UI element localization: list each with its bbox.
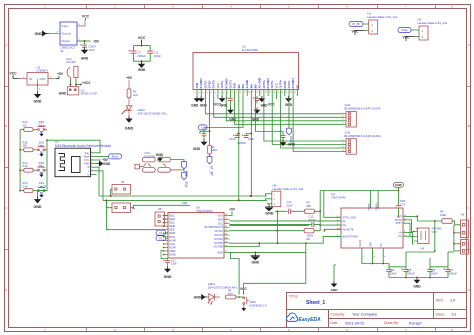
U3 ground pin wire [48, 33, 60, 35]
svg-text:MUTE/PIN/OUT: MUTE/PIN/OUT [204, 225, 223, 229]
wire OUT1- to CN2 pin3 [226, 96, 341, 121]
junction on ladder bus [19, 190, 21, 192]
IC U6 body [168, 213, 224, 259]
U4 OUT wire [409, 215, 418, 217]
connector right edge lower [461, 240, 469, 255]
svg-text:GND: GND [34, 205, 42, 209]
svg-text:+5V: +5V [57, 72, 64, 76]
wire IN4 long vertical [250, 96, 252, 196]
svg-text:Ground: Ground [62, 32, 72, 36]
resistor R10 on ST-BY [208, 145, 212, 154]
svg-text:G: G [87, 172, 89, 176]
svg-text:S-GND: S-GND [245, 80, 249, 89]
wire OUT3- to CN3 pin2 [272, 96, 341, 145]
connector CN2 body [346, 112, 356, 128]
wire out to R9 node [417, 220, 441, 222]
svg-text:DC-005: DC-005 [67, 60, 76, 64]
svg-text:Header-Male-2.54_1x2: Header-Male-2.54_1x2 [418, 21, 448, 25]
capacitor C3 10uF [84, 41, 86, 45]
audio bus wire lower [103, 199, 267, 201]
svg-text:REV:: REV: [436, 299, 443, 303]
+5V at U6 VDD [230, 212, 233, 216]
svg-text:B: B [5, 124, 7, 128]
svg-text:OUT3+: OUT3+ [262, 79, 266, 88]
net flag PJ3 below jack [181, 170, 184, 172]
H9 pin1 wire from bus [266, 194, 268, 196]
wire IN1 long vertical [238, 96, 240, 200]
header H1 body [369, 20, 378, 34]
wires into lower connector [454, 232, 456, 234]
junction on +5V rail [84, 40, 86, 42]
svg-text:GND: GND [81, 57, 89, 61]
svg-text:IN+MUTE: IN+MUTE [343, 228, 354, 231]
header H2 body [419, 26, 428, 40]
wire R8 right to node [314, 230, 320, 232]
signal ground rail above U4 [320, 190, 398, 192]
svg-text:B: B [468, 124, 470, 128]
svg-text:Company:: Company: [331, 312, 346, 316]
audio bus wire upper [99, 195, 267, 197]
svg-text:OUT2-: OUT2- [203, 80, 207, 88]
decoupling cap cluster on IN2 branch [203, 130, 205, 134]
svg-text:NC: NC [380, 243, 383, 247]
svg-text:BLH6900SB-5.0-04P-13-00A: BLH6900SB-5.0-04P-13-00A [345, 134, 381, 138]
ground flag on U6 gnd wire [251, 252, 260, 259]
svg-text:GND: GND [156, 153, 164, 157]
svg-text:BOOTSTRAP: BOOTSTRAP [343, 235, 359, 238]
svg-text:H4: H4 [132, 207, 136, 211]
U3 input pin wire to VCC [77, 20, 85, 26]
svg-text:SVR: SVR [370, 242, 373, 247]
U5 input wire and VCC [19, 78, 28, 80]
cap mark at SW1 [40, 132, 43, 133]
svg-text:C10C: C10C [229, 137, 236, 141]
svg-text:GND: GND [265, 212, 274, 216]
svg-text:L7806CV: L7806CV [37, 69, 49, 73]
ground flag at module GND pin [97, 162, 103, 166]
junction cluster dots [416, 228, 418, 230]
U5 output wire and +5V [48, 78, 56, 80]
svg-text:R6: R6 [307, 201, 311, 205]
VCC at U1 pin 20 [275, 96, 277, 99]
capacitor C16 100nF [388, 267, 390, 269]
svg-text:OUTSW: OUTSW [213, 245, 223, 249]
svg-text:1kΩ: 1kΩ [133, 93, 138, 97]
svg-text:100nF: 100nF [154, 55, 162, 58]
regulator U3 L7905 body [60, 22, 77, 45]
svg-text:Mute: Mute [401, 28, 408, 32]
svg-text:OUT: OUT [40, 77, 47, 81]
svg-text:NC: NC [295, 84, 299, 88]
svg-text:U3: U3 [60, 49, 64, 53]
top rails of caps [389, 266, 406, 268]
svg-text:AUXR: AUXR [169, 246, 176, 249]
svg-text:TDA7294V: TDA7294V [331, 195, 346, 199]
svg-text:R: R [88, 165, 90, 169]
svg-text:P-GND4: P-GND4 [291, 78, 295, 89]
wire U6 gnd down to LED row [230, 252, 239, 294]
wire OUT1+ to CN2 pin4 [235, 96, 342, 124]
wire OUT3+ to CN3 pin1 [264, 96, 342, 141]
ground at U1 pin 16 area [259, 96, 264, 101]
Mute net flag at module [97, 155, 109, 157]
wire +Vs [409, 235, 411, 237]
wire OUT4+ to CN3 pin3 [281, 96, 342, 148]
svg-text:GND: GND [288, 143, 296, 147]
U6 output wire toward C12 [230, 224, 312, 226]
svg-text:Date:: Date: [331, 321, 339, 325]
svg-text:E-TDA7386: E-TDA7386 [242, 48, 258, 52]
svg-text:GND: GND [260, 104, 268, 108]
svg-text:IN-: IN- [343, 220, 347, 223]
junctions at jack node [70, 84, 72, 86]
ground pins 1-2 of U1 [195, 96, 200, 101]
svg-text:SGND: SGND [169, 254, 176, 257]
svg-text:OUTRA: OUTRA [214, 237, 223, 241]
svg-text:1000uF: 1000uF [449, 272, 458, 275]
ground below C21 [167, 263, 169, 267]
svg-text:470nF: 470nF [309, 218, 317, 222]
svg-text:SE2L: SE2L [169, 222, 176, 225]
wire module L pin down to bus [97, 171, 104, 201]
svg-text:VCC: VCC [138, 36, 146, 40]
module U7 body [55, 148, 91, 177]
Mute net flag at H2 [398, 28, 411, 33]
svg-text:GND: GND [193, 147, 201, 151]
svg-text:1/1: 1/1 [451, 312, 456, 316]
svg-text:Sheet_1: Sheet_1 [306, 300, 325, 306]
vertical wire right [434, 221, 436, 251]
wire LED2 to ground [128, 111, 130, 116]
EasyEDA logo [286, 313, 321, 323]
IC U4 right pins [395, 215, 409, 238]
ground below U4 left [332, 282, 336, 287]
svg-text:2200uF: 2200uF [137, 55, 146, 58]
wire MUTE pin down to flag [288, 96, 290, 128]
svg-text:P-GND2: P-GND2 [199, 78, 203, 89]
cap mark at SW2 [40, 152, 43, 153]
svg-text:CREF: CREF [169, 250, 176, 253]
net flag P1 at U6 [156, 230, 166, 235]
svg-text:H5: H5 [121, 180, 125, 184]
U5 ground pin and GND [37, 85, 39, 92]
capacitor at U1 SVR pin [229, 96, 231, 98]
svg-text:STBY_GND: STBY_GND [343, 216, 357, 219]
decoupling cap on IN3 branch [281, 135, 286, 137]
ground of caps rail [415, 278, 420, 283]
svg-text:GND: GND [217, 250, 223, 254]
svg-text:XP301-5.0-2P: XP301-5.0-2P [81, 92, 98, 96]
svg-text:SCL: SCL [218, 221, 224, 225]
ground below AC-GND cap [255, 108, 260, 113]
resistor R9 body [442, 219, 453, 224]
filter caps bottom rail [134, 53, 151, 61]
branch cap to ground off ST-BY [209, 130, 211, 132]
+5V at module VCC pin [97, 159, 101, 161]
svg-text:OUTLR: OUTLR [214, 233, 223, 237]
module U7 pins [84, 151, 97, 177]
IC U4 body [341, 208, 403, 248]
svg-text:TAB: TAB [195, 83, 199, 88]
svg-text:22uF: 22uF [171, 263, 177, 266]
svg-text:R8: R8 [307, 237, 311, 241]
header H5 body [112, 185, 131, 195]
svg-text:GND: GND [191, 104, 199, 108]
svg-text:GND: GND [200, 104, 208, 108]
svg-text:51K: 51K [23, 124, 28, 127]
svg-text:C12: C12 [309, 215, 314, 219]
net flag P2 at U6 [156, 236, 166, 241]
wire caps right feed [447, 252, 449, 267]
svg-text:680: 680 [307, 204, 312, 208]
svg-text:GND: GND [84, 162, 90, 166]
svg-text:5.1K: 5.1K [23, 185, 28, 188]
wire +5V to R3 [128, 80, 130, 88]
svg-text:8.2K: 8.2K [23, 165, 28, 168]
connector right edge upper [461, 220, 469, 238]
resistor R3 [127, 89, 131, 98]
capacitor C12 left bus wire [230, 224, 309, 226]
wire +Vs down to caps [405, 252, 407, 267]
svg-text:H8: H8 [158, 207, 162, 211]
svg-text:+5V: +5V [126, 76, 133, 80]
ST-BY pin resistor network [209, 96, 211, 145]
svg-text:100nF: 100nF [431, 272, 438, 275]
svg-text:GND: GND [331, 288, 339, 292]
svg-text:+VCC: +VCC [82, 81, 91, 85]
svg-text:+Vs: +Vs [398, 235, 403, 238]
capacitor C18 1000uF [405, 267, 407, 269]
svg-text:KXD3818-2-C: KXD3818-2-C [250, 304, 267, 308]
cap mark at SW4 [40, 193, 43, 194]
wire OUT2- to CN2 pin1 [205, 96, 341, 114]
svg-text:SGND: SGND [359, 240, 362, 247]
button ladder right bus wire [46, 140, 48, 190]
capacitor C21 at U6 CREF [161, 251, 168, 261]
svg-text:IN2: IN2 [241, 84, 245, 89]
relay U8 small box [418, 228, 430, 244]
svg-text:SE3R: SE3R [169, 232, 176, 235]
svg-text:Header-Male-2.54_1x2: Header-Male-2.54_1x2 [368, 15, 398, 19]
svg-text:R9: R9 [440, 209, 444, 213]
svg-text:OUT4+: OUT4+ [279, 79, 283, 88]
VCC at U1 pin 6 [217, 96, 219, 99]
svg-text:CN1: CN1 [145, 151, 151, 155]
svg-text:GND: GND [34, 100, 42, 104]
svg-text:KGray7: KGray7 [409, 321, 422, 325]
ground below C3 [82, 47, 87, 53]
svg-text:+5V: +5V [229, 207, 236, 211]
svg-text:EasyEDA: EasyEDA [299, 317, 322, 323]
net flag PJ2 below jack [181, 160, 184, 162]
resistor R8 22k [304, 229, 314, 233]
svg-text:10kΩ: 10kΩ [440, 213, 446, 217]
svg-text:VCC: VCC [274, 83, 278, 89]
svg-text:R3: R3 [133, 89, 137, 93]
svg-text:DNF: DNF [400, 199, 406, 203]
svg-text:GND: GND [413, 284, 421, 288]
svg-text:IN4: IN4 [249, 84, 253, 89]
svg-text:0.5P: 0.5P [432, 231, 437, 234]
svg-text:BLH6900SB-5.0-04P-13-00A: BLH6900SB-5.0-04P-13-00A [345, 107, 381, 111]
junctions on audio buses [110, 195, 112, 197]
wire bus to C13 [275, 210, 288, 212]
IC U4 left pins [336, 216, 358, 239]
svg-text:PJ-327A: PJ-327A [145, 155, 156, 159]
wire -Vs to bottom ground [333, 265, 335, 282]
svg-text:M18 Bluetooth Audio Receiver M: M18 Bluetooth Audio Receiver Module [55, 144, 111, 148]
regulator U5 body [27, 73, 48, 86]
svg-text:GND: GND [125, 127, 134, 131]
svg-text:Drawn By:: Drawn By: [384, 321, 399, 325]
svg-text:IN3: IN3 [254, 84, 258, 89]
title block table [287, 293, 467, 328]
junction key line [46, 139, 48, 141]
wire node into U4 IN+ [320, 224, 341, 226]
svg-text:VCC: VCC [82, 15, 90, 19]
svg-text:MUXR: MUXR [169, 239, 176, 242]
ground below IN3 cap [281, 140, 286, 145]
wire R3 to LED2 [128, 98, 130, 106]
svg-text:ST-BY: ST-BY [208, 80, 212, 88]
capacitor C15 100nF [429, 267, 431, 269]
svg-text:OUTRF: OUTRF [214, 241, 223, 245]
wire R9 to connector [452, 221, 460, 225]
wire R6 to node [314, 210, 320, 212]
H9 pin3 wire to ground [267, 204, 269, 205]
svg-text:VDD: VDD [218, 214, 224, 218]
svg-text:VCC: VCC [216, 83, 220, 89]
net flag on IN2 branch [199, 125, 208, 130]
wire module R pin down to bus [97, 167, 100, 196]
svg-text:GND: GND [103, 162, 111, 166]
ST_BY net flag at H1 [349, 22, 363, 27]
svg-text:OUT1+: OUT1+ [228, 79, 232, 88]
svg-text:Key: Key [85, 151, 90, 155]
svg-text:OUT3-: OUT3- [270, 80, 274, 88]
svg-text:GND: GND [59, 91, 67, 95]
svg-text:A: A [5, 43, 7, 47]
svg-text:10uF: 10uF [89, 48, 95, 52]
wire OUT4- to CN3 pin4 [293, 96, 341, 152]
wire key ladder to module Key pin [47, 140, 100, 153]
svg-text:GND: GND [34, 32, 42, 36]
junction on ladder bus [19, 149, 21, 151]
svg-text:SE1L: SE1L [169, 215, 176, 218]
wire IN3 branch [256, 96, 283, 135]
svg-text:+5V: +5V [93, 39, 100, 43]
ground at U1 pin 7 [220, 96, 225, 101]
svg-text:H6: H6 [461, 212, 465, 216]
H5 wire to bus [111, 189, 112, 196]
capacitor C11 100nF [147, 51, 153, 53]
input caps C10C C10F [238, 133, 240, 135]
svg-text:U8: U8 [421, 247, 425, 251]
vertical link wire [276, 211, 278, 243]
ground below button ladder [38, 191, 48, 197]
IC U4 bottom pins [361, 248, 363, 259]
IC U1 body [193, 53, 299, 90]
wires MUTE STBY to U8 [409, 220, 415, 232]
jack CN1 symbol [135, 157, 181, 172]
svg-text:22uF: 22uF [287, 204, 293, 208]
wire U4 bottom rail [362, 259, 389, 267]
capacitor C4 2200uF [131, 51, 137, 53]
svg-text:H1B: H1B [182, 201, 187, 205]
svg-text:P-GND3: P-GND3 [266, 78, 270, 89]
Mute net flag pendant [287, 128, 292, 135]
header H4 body [112, 203, 131, 213]
svg-text:IN+: IN+ [343, 224, 348, 227]
IC U1 pins [194, 78, 299, 96]
svg-text:P-GND1: P-GND1 [224, 78, 228, 89]
long bus to bootstrap [230, 236, 342, 243]
U6 OUTSW wire up to bus [230, 243, 260, 246]
wire OUT2+ to CN2 pin2 [214, 96, 342, 117]
wire rail to STBY_GND pin [324, 191, 341, 218]
svg-text:IN1: IN1 [237, 84, 241, 89]
U6 output wire to U4 IN- [230, 220, 342, 222]
svg-text:204-15UTC/S400-X9-L: 204-15UTC/S400-X9-L [208, 285, 238, 289]
svg-text:2021-04-22: 2021-04-22 [345, 321, 364, 325]
switch SW5 [243, 297, 249, 305]
ground below filter caps [139, 61, 144, 67]
svg-text:STBY: STBY [395, 222, 402, 225]
svg-text:OUT2+: OUT2+ [212, 79, 216, 88]
DC jack wires down [70, 80, 72, 87]
ground below SVR cap [228, 108, 233, 113]
svg-text:10kΩ: 10kΩ [212, 149, 218, 152]
node vertical from rail through R6 node [319, 191, 321, 231]
svg-text:IN: IN [29, 77, 32, 81]
svg-text:Input: Input [62, 24, 68, 28]
svg-text:A: A [468, 43, 470, 47]
long wire from bus down to VCC row [244, 243, 306, 283]
svg-text:GND: GND [164, 275, 172, 279]
svg-text:PJ3: PJ3 [184, 182, 188, 188]
svg-text:1.0: 1.0 [450, 299, 455, 303]
svg-text:MUTE: MUTE [283, 81, 287, 89]
module shield box [72, 157, 81, 173]
svg-text:33K: 33K [23, 145, 28, 148]
wire -Vs [409, 233, 415, 244]
U3 output wire +5V rail [77, 40, 91, 42]
svg-text:GND: GND [395, 183, 403, 187]
svg-text:ST_BY: ST_BY [210, 166, 214, 177]
svg-text:2200uF: 2200uF [237, 141, 246, 145]
svg-text:204-15UTC/S400-X9-L: 204-15UTC/S400-X9-L [138, 112, 168, 116]
wire SW5 down [243, 304, 245, 307]
DC jack symbol [67, 66, 78, 80]
junction on ladder bus [19, 169, 21, 171]
svg-text:OUT1-: OUT1- [220, 80, 224, 88]
IC U6 left pins [163, 215, 177, 257]
IC U4 top pins PWVS [370, 191, 372, 209]
svg-text:Sheet:: Sheet: [436, 312, 445, 316]
svg-text:GND: GND [252, 260, 260, 264]
module antenna trace [59, 154, 65, 171]
svg-text:SDA: SDA [218, 217, 224, 221]
connector XP301 body [67, 87, 79, 95]
wire R8 left bus [230, 230, 305, 232]
svg-text:TITLE:: TITLE: [289, 295, 299, 299]
svg-text:OUTLF: OUTLF [214, 229, 223, 233]
wire bus into U6 left pin [106, 200, 163, 229]
IC U6 right pins [204, 214, 229, 255]
bottom ground rail of caps [389, 277, 448, 279]
cap mark at SW3 [40, 172, 43, 173]
svg-text:Mute: Mute [112, 155, 119, 159]
